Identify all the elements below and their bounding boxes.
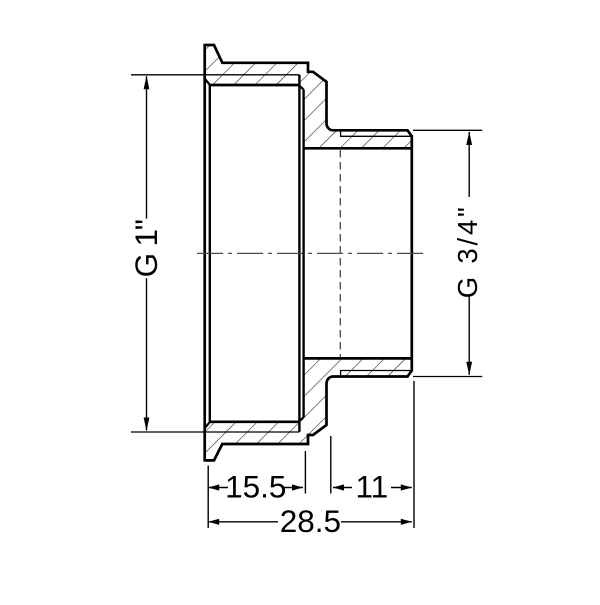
male bore top line: [304, 147, 412, 150]
svg-text:G 3/4": G 3/4": [452, 204, 483, 298]
G1 bore top line: [210, 84, 300, 87]
thread end vertical A: [298, 75, 300, 432]
svg-text:G 1": G 1": [128, 220, 164, 277]
A to B chamfer top: [299, 86, 303, 90]
hatched cut wall bottom: [205, 358, 412, 460]
bore chamfer top: [205, 79, 210, 85]
shoulder vertical B: [302, 90, 304, 418]
centerline: [197, 252, 423, 254]
hatched cut wall top: [205, 45, 412, 148]
bottom extension lines: [207, 466, 209, 529]
dim 11: [333, 487, 352, 489]
male thread root thin line top: [341, 130, 411, 136]
G3/4 dimension line: [468, 132, 470, 197]
left end face: [203, 44, 206, 462]
right end face: [410, 135, 413, 371]
dim 28.5: [208, 521, 278, 523]
G1 thread major thin line top (extends as extension line): [131, 74, 299, 76]
A to B chamfer bottom: [299, 417, 303, 421]
chamfer edge vertical: [209, 85, 211, 422]
svg-text:28.5: 28.5: [280, 503, 341, 539]
male thread root thin line bottom: [341, 371, 411, 377]
hidden dashed line: [339, 150, 341, 357]
G1 dimension line: [146, 76, 148, 218]
svg-text:15.5: 15.5: [225, 469, 286, 505]
outer profile bottom: [205, 371, 412, 461]
outer profile top: [205, 45, 412, 136]
G3/4 extension line top: [413, 129, 482, 131]
dim 15.5: [208, 487, 228, 489]
svg-text:11: 11: [355, 469, 388, 505]
bore chamfer bottom: [205, 422, 210, 428]
G1 thread major thin line bottom: [131, 431, 299, 433]
G3/4 extension line bottom: [413, 376, 482, 378]
male bore bottom line: [304, 357, 412, 360]
G1 bore bottom line: [210, 420, 300, 423]
